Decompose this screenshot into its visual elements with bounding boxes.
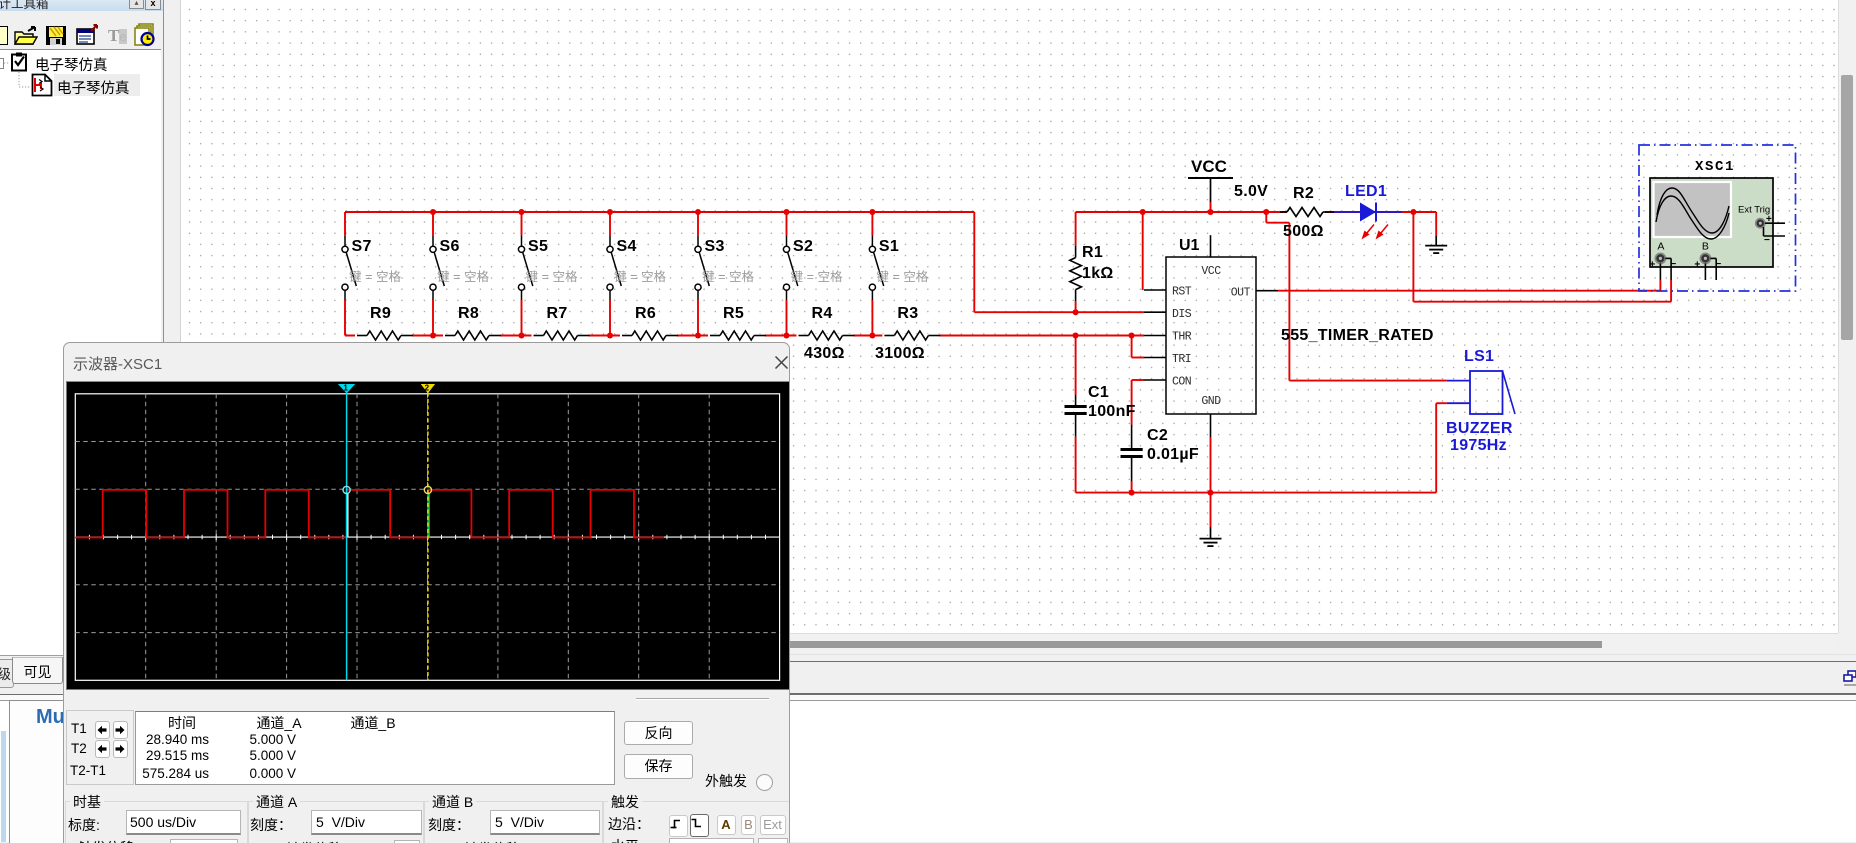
- svg-text:S3: S3: [705, 238, 725, 255]
- svg-text:RST: RST: [1172, 286, 1192, 299]
- svg-text:S7: S7: [352, 238, 372, 255]
- svg-text:键 = 空格: 键 = 空格: [791, 269, 844, 284]
- svg-text:BUZZER: BUZZER: [1446, 420, 1513, 437]
- svg-text:TRI: TRI: [1172, 353, 1191, 366]
- svg-text:LED1: LED1: [1345, 183, 1387, 200]
- svg-text:R6: R6: [635, 305, 656, 322]
- svg-text:VCC: VCC: [1201, 265, 1221, 278]
- svg-text:C2: C2: [1147, 427, 1168, 444]
- svg-text:S6: S6: [440, 238, 460, 255]
- svg-text:100nF: 100nF: [1088, 403, 1136, 420]
- svg-text:CON: CON: [1172, 376, 1191, 389]
- svg-text:键 = 空格: 键 = 空格: [349, 269, 402, 284]
- svg-text:键 = 空格: 键 = 空格: [614, 269, 667, 284]
- svg-text:2: 2: [425, 384, 430, 393]
- svg-text:R7: R7: [547, 305, 568, 322]
- svg-text:+: +: [1649, 260, 1655, 271]
- svg-text:S1: S1: [879, 238, 899, 255]
- svg-text:DIS: DIS: [1172, 308, 1192, 321]
- svg-text:−: −: [1764, 235, 1770, 246]
- svg-text:键 = 空格: 键 = 空格: [876, 269, 929, 284]
- svg-text:XSC1: XSC1: [1695, 159, 1735, 175]
- svg-text:500Ω: 500Ω: [1283, 223, 1324, 240]
- svg-text:3100Ω: 3100Ω: [875, 345, 925, 362]
- svg-text:OUT: OUT: [1231, 286, 1251, 299]
- svg-text:430Ω: 430Ω: [804, 345, 845, 362]
- svg-text:R9: R9: [370, 305, 391, 322]
- svg-text:1: 1: [343, 384, 348, 393]
- svg-text:S2: S2: [793, 238, 813, 255]
- svg-text:键 = 空格: 键 = 空格: [437, 269, 490, 284]
- svg-text:555_TIMER_RATED: 555_TIMER_RATED: [1281, 327, 1434, 344]
- svg-text:+: +: [1694, 260, 1700, 271]
- svg-text:VCC: VCC: [1191, 157, 1227, 176]
- svg-text:键 = 空格: 键 = 空格: [526, 269, 579, 284]
- svg-text:R2: R2: [1293, 185, 1314, 202]
- svg-text:S5: S5: [528, 238, 548, 255]
- svg-text:GND: GND: [1201, 395, 1221, 408]
- svg-text:A: A: [1657, 241, 1664, 253]
- svg-text:R3: R3: [897, 305, 918, 322]
- svg-text:R1: R1: [1082, 244, 1103, 261]
- svg-text:R8: R8: [458, 305, 479, 322]
- svg-text:B: B: [1702, 241, 1709, 253]
- svg-text:5.0V: 5.0V: [1234, 183, 1268, 200]
- svg-text:R4: R4: [812, 305, 833, 322]
- svg-text:LS1: LS1: [1464, 348, 1494, 365]
- svg-text:1kΩ: 1kΩ: [1082, 265, 1114, 282]
- svg-text:R5: R5: [723, 305, 744, 322]
- svg-text:键 = 空格: 键 = 空格: [702, 269, 755, 284]
- svg-text:0.01µF: 0.01µF: [1147, 446, 1199, 463]
- svg-text:THR: THR: [1172, 331, 1192, 344]
- svg-text:1975Hz: 1975Hz: [1450, 437, 1507, 454]
- svg-text:S4: S4: [617, 238, 637, 255]
- svg-text:C1: C1: [1088, 384, 1109, 401]
- svg-text:U1: U1: [1179, 237, 1200, 254]
